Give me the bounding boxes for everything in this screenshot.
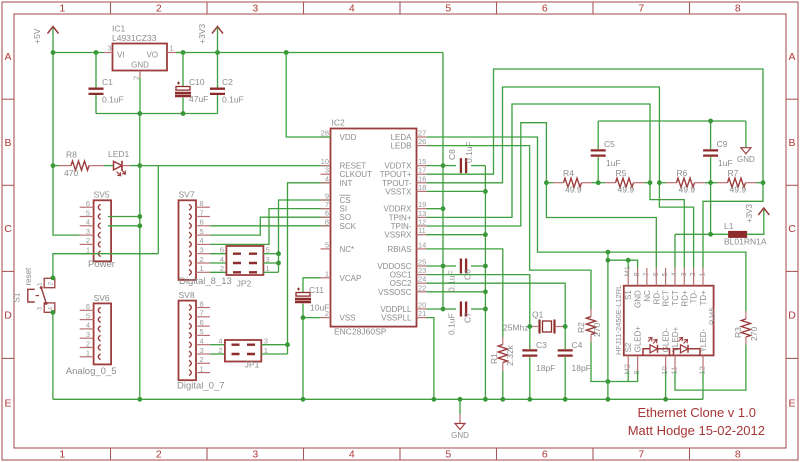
connector SV5 Power bbox=[80, 190, 115, 270]
svg-text:7: 7 bbox=[641, 272, 650, 276]
net LEDA to R3 bbox=[427, 137, 746, 311]
svg-text:L1: L1 bbox=[724, 221, 734, 231]
LED D1 LED1 bbox=[108, 149, 130, 176]
svg-text:8: 8 bbox=[200, 299, 204, 308]
svg-text:8: 8 bbox=[735, 3, 741, 15]
svg-text:270: 270 bbox=[592, 323, 602, 337]
svg-text:14: 14 bbox=[418, 240, 426, 249]
svg-text:3: 3 bbox=[37, 307, 44, 311]
junction bbox=[483, 289, 488, 294]
svg-text:INT: INT bbox=[340, 179, 353, 188]
svg-text:C7: C7 bbox=[463, 312, 473, 323]
junction Q1 right bbox=[563, 324, 568, 329]
svg-text:3: 3 bbox=[679, 272, 688, 276]
svg-text:19: 19 bbox=[418, 200, 426, 209]
stub bbox=[746, 182, 757, 184]
svg-text:GND: GND bbox=[634, 290, 643, 308]
svg-text:TD+: TD+ bbox=[699, 290, 708, 306]
svg-text:C: C bbox=[788, 223, 796, 235]
junction R5 right bbox=[648, 180, 653, 185]
svg-text:6: 6 bbox=[542, 3, 548, 15]
svg-text:270: 270 bbox=[749, 327, 759, 341]
svg-text:A: A bbox=[4, 51, 11, 63]
svg-text:VSS: VSS bbox=[340, 314, 356, 323]
wire SV8 pin4 to JP1 bbox=[210, 344, 225, 346]
wire bbox=[705, 182, 717, 184]
connector SV7 Digital_8_13 bbox=[179, 190, 232, 288]
svg-text:L4931CZ33: L4931CZ33 bbox=[112, 33, 157, 43]
junction bbox=[606, 379, 611, 384]
svg-text:26: 26 bbox=[418, 137, 426, 146]
svg-text:VSSOSC: VSSOSC bbox=[378, 288, 412, 297]
svg-text:0.1uF: 0.1uF bbox=[102, 95, 124, 105]
svg-text:C2: C2 bbox=[222, 77, 233, 87]
wire M2 drop bbox=[627, 371, 629, 382]
junction bbox=[483, 232, 488, 237]
resistor R3 270 bbox=[741, 319, 750, 337]
svg-text:4: 4 bbox=[325, 174, 329, 183]
svg-text:VDD: VDD bbox=[340, 133, 357, 142]
jumper JP1 bbox=[218, 337, 268, 370]
svg-text:RD+: RD+ bbox=[680, 290, 689, 307]
C10 plates bbox=[176, 87, 190, 91]
stub bbox=[459, 414, 461, 424]
svg-text:4: 4 bbox=[670, 272, 679, 276]
net SV7 pin4 to IC2 SI bbox=[210, 209, 331, 245]
svg-text:49.9: 49.9 bbox=[679, 185, 696, 195]
svg-text:Ethernet Clone v 1.0: Ethernet Clone v 1.0 bbox=[637, 405, 756, 420]
svg-text:49.9: 49.9 bbox=[565, 185, 582, 195]
svg-text:RBIAS: RBIAS bbox=[387, 245, 411, 254]
net gnd collector vertical bbox=[484, 166, 486, 400]
stub bbox=[553, 182, 564, 184]
wire +3V3 stem bbox=[217, 28, 219, 53]
svg-text:4: 4 bbox=[220, 255, 224, 264]
stub R8 left bbox=[59, 165, 71, 167]
wire VDDOSC to rail bbox=[427, 265, 444, 267]
svg-text:0.1uF: 0.1uF bbox=[464, 141, 474, 163]
svg-text:reset: reset bbox=[24, 267, 33, 286]
svg-text:Digital_0_7: Digital_0_7 bbox=[177, 381, 225, 392]
junction bbox=[441, 163, 446, 168]
wire VDDPLL to rail bbox=[427, 308, 444, 310]
svg-text:SV8: SV8 bbox=[179, 290, 195, 300]
svg-text:D: D bbox=[788, 309, 796, 321]
svg-text:D: D bbox=[4, 309, 12, 321]
svg-text:NC: NC bbox=[643, 290, 652, 302]
svg-text:C3: C3 bbox=[536, 340, 547, 350]
svg-text:LED1: LED1 bbox=[108, 149, 130, 159]
svg-text:0.1uF: 0.1uF bbox=[447, 313, 457, 335]
svg-text:5: 5 bbox=[86, 311, 90, 320]
junction bbox=[137, 163, 142, 168]
LED yellow inside RJ45 bbox=[674, 349, 701, 356]
svg-text:7: 7 bbox=[200, 309, 204, 318]
svg-text:12: 12 bbox=[418, 218, 426, 227]
wire S1 bottom to gnd bus bbox=[52, 312, 54, 399]
svg-text:49.9: 49.9 bbox=[730, 185, 747, 195]
svg-text:R1: R1 bbox=[489, 353, 499, 364]
junction bbox=[276, 251, 281, 256]
svg-text:7: 7 bbox=[200, 208, 204, 217]
resistor R1 2.32k bbox=[498, 345, 507, 363]
capacitor C3 18pF bbox=[522, 327, 555, 400]
svg-text:RCT: RCT bbox=[662, 290, 671, 307]
svg-text:7: 7 bbox=[638, 3, 644, 15]
wire VSSOSC to collector bbox=[427, 291, 486, 293]
svg-text:E: E bbox=[4, 398, 11, 410]
junction bbox=[51, 50, 56, 55]
jumper JP2 bbox=[220, 246, 270, 289]
svg-text:SV7: SV7 bbox=[179, 190, 195, 200]
svg-text:RD-: RD- bbox=[652, 290, 661, 305]
net SV7 pin5 to IC2 SO bbox=[210, 217, 331, 235]
svg-text:2: 2 bbox=[86, 339, 90, 348]
junction bbox=[301, 315, 306, 320]
svg-text:4: 4 bbox=[86, 321, 90, 330]
svg-text:6: 6 bbox=[542, 449, 548, 461]
svg-text:2: 2 bbox=[47, 282, 54, 286]
svg-text:6: 6 bbox=[200, 318, 204, 327]
junction S1 bottom bbox=[51, 310, 56, 315]
wire bbox=[644, 182, 650, 184]
wire SV5 pin5 to rail bbox=[108, 216, 140, 218]
capacitor C9 1uF bbox=[703, 121, 733, 183]
ground GND top right bbox=[741, 148, 751, 154]
svg-text:5: 5 bbox=[200, 227, 204, 236]
junction bus bbox=[663, 397, 668, 402]
svg-text:4: 4 bbox=[86, 218, 90, 227]
svg-text:3: 3 bbox=[252, 449, 258, 461]
wire GLED- to bus bbox=[665, 371, 667, 399]
svg-text:Analog_0_5: Analog_0_5 bbox=[66, 366, 117, 377]
capacitor C5 1uF bbox=[591, 121, 621, 183]
svg-text:4: 4 bbox=[47, 307, 54, 311]
svg-text:18pF: 18pF bbox=[572, 363, 591, 373]
svg-text:Digital_8_13: Digital_8_13 bbox=[179, 276, 232, 287]
svg-text:6: 6 bbox=[200, 218, 204, 227]
svg-text:C8: C8 bbox=[447, 149, 457, 160]
C4 plates bbox=[558, 350, 573, 355]
junction bbox=[441, 206, 446, 211]
junction bbox=[606, 258, 611, 263]
stub bbox=[605, 182, 616, 184]
svg-text:21: 21 bbox=[418, 309, 426, 318]
wire to TCT pin bbox=[674, 234, 676, 268]
net TPIN+ to R5/RD+ bbox=[427, 104, 685, 268]
junction bus bbox=[606, 397, 611, 402]
svg-text:VCAP: VCAP bbox=[340, 274, 362, 283]
wire R8 to LED1 bbox=[104, 165, 114, 167]
net LEDB to R2 bbox=[427, 146, 592, 309]
stub R8 right bbox=[89, 165, 104, 167]
svg-text:C9: C9 bbox=[717, 139, 728, 149]
junction bbox=[441, 264, 446, 269]
svg-text:S2: S2 bbox=[624, 342, 633, 352]
stub bbox=[666, 182, 677, 184]
svg-text:B: B bbox=[4, 137, 11, 149]
svg-text:18pF: 18pF bbox=[536, 363, 555, 373]
stub bbox=[745, 337, 747, 345]
junction bus bbox=[301, 397, 306, 402]
svg-text:C5: C5 bbox=[604, 139, 615, 149]
resistor R6 49.9 bbox=[677, 178, 695, 187]
C2 plates bbox=[210, 89, 225, 94]
capacitor C10 47uF bbox=[175, 53, 208, 114]
ground GND bottom bbox=[459, 399, 461, 414]
svg-text:11: 11 bbox=[670, 367, 679, 375]
svg-text:1: 1 bbox=[200, 364, 204, 373]
junction bbox=[284, 50, 289, 55]
svg-text:47uF: 47uF bbox=[189, 94, 208, 104]
junction bbox=[483, 307, 488, 312]
junction bbox=[94, 50, 99, 55]
svg-text:C10: C10 bbox=[189, 77, 205, 87]
svg-text:2: 2 bbox=[156, 3, 162, 15]
svg-text:1: 1 bbox=[59, 449, 65, 461]
junction bbox=[708, 119, 713, 124]
stub bbox=[590, 309, 592, 317]
junction bbox=[285, 342, 290, 347]
net LED1 cathode to gnd bus / vertical rail bbox=[139, 114, 141, 400]
svg-text:B: B bbox=[788, 137, 795, 149]
wire VSSTX to collector bbox=[427, 190, 486, 192]
svg-text:2: 2 bbox=[132, 76, 141, 80]
wire VSSPLL down to bus bbox=[427, 318, 434, 400]
svg-text:Q1: Q1 bbox=[532, 310, 544, 320]
junction bbox=[708, 180, 713, 185]
net center tap to L1 bbox=[710, 183, 712, 235]
svg-text:C4: C4 bbox=[572, 340, 583, 350]
svg-text:+3V3: +3V3 bbox=[197, 24, 207, 44]
C5 plates bbox=[591, 150, 606, 155]
resistor R8 470 bbox=[71, 161, 89, 170]
svg-text:1: 1 bbox=[200, 264, 204, 273]
junction bus bbox=[500, 397, 505, 402]
junction Q1 left bbox=[527, 324, 532, 329]
junction bbox=[215, 50, 220, 55]
wire gnd bus of regulator bbox=[96, 113, 218, 115]
junction bus bbox=[563, 397, 568, 402]
svg-text:22: 22 bbox=[418, 283, 426, 292]
capacitor C4 18pF bbox=[558, 327, 591, 400]
wire SV8 pin3 to JP1 bbox=[210, 353, 225, 355]
junction C5 bbox=[596, 180, 601, 185]
svg-text:S1: S1 bbox=[624, 290, 633, 300]
net TPIN- to R4/RD- bbox=[427, 123, 657, 268]
C8 plates bbox=[461, 158, 466, 173]
svg-text:10uF: 10uF bbox=[310, 303, 329, 313]
svg-text:R8: R8 bbox=[66, 150, 77, 160]
svg-text:GND: GND bbox=[451, 431, 469, 440]
junction bus bbox=[432, 397, 437, 402]
capacitor C8 bbox=[443, 141, 485, 173]
svg-text:10: 10 bbox=[660, 366, 669, 374]
svg-text:SCK: SCK bbox=[340, 222, 357, 231]
wire LED1 cathode bbox=[130, 165, 140, 167]
svg-text:5: 5 bbox=[200, 327, 204, 336]
svg-text:12: 12 bbox=[698, 366, 707, 374]
svg-text:C: C bbox=[4, 223, 12, 235]
svg-text:1uF: 1uF bbox=[606, 158, 621, 168]
wire bbox=[592, 182, 605, 184]
net +3V3 rail top bbox=[176, 52, 443, 54]
svg-text:ENC28J60SP: ENC28J60SP bbox=[334, 327, 387, 337]
svg-text:Matt Hodge 15-02-2012: Matt Hodge 15-02-2012 bbox=[628, 423, 765, 438]
C9 plates bbox=[703, 150, 718, 155]
svg-text:E: E bbox=[788, 398, 795, 410]
net TPOUT- to R6/TD- bbox=[427, 87, 694, 268]
connector U3 RJ45 HFJ11-2450E bbox=[614, 266, 717, 374]
svg-text:R5: R5 bbox=[616, 168, 627, 178]
junction R7 right bbox=[761, 180, 766, 185]
svg-text:6: 6 bbox=[651, 272, 660, 276]
stub bbox=[717, 182, 728, 184]
svg-text:GLED+: GLED+ bbox=[634, 326, 643, 353]
svg-text:4: 4 bbox=[200, 337, 204, 346]
net OSC1 to crystal bbox=[427, 275, 530, 327]
svg-text:2: 2 bbox=[156, 449, 162, 461]
capacitor C2 bbox=[210, 53, 244, 114]
svg-text:6: 6 bbox=[86, 199, 90, 208]
net OSC2 to crystal bbox=[427, 283, 566, 326]
svg-text:R3: R3 bbox=[733, 327, 743, 338]
svg-text:VSSRX: VSSRX bbox=[384, 231, 412, 240]
svg-text:3: 3 bbox=[86, 330, 90, 339]
svg-text:R4: R4 bbox=[563, 168, 574, 178]
wire bbox=[659, 182, 666, 184]
junction bbox=[483, 264, 488, 269]
svg-text:JP1: JP1 bbox=[245, 359, 260, 369]
svg-text:8: 8 bbox=[325, 217, 329, 226]
net +3V3 vertical rail bbox=[442, 53, 444, 310]
svg-text:VI: VI bbox=[117, 51, 125, 60]
svg-text:2: 2 bbox=[688, 272, 697, 276]
wire VDDTX to rail bbox=[427, 165, 444, 167]
svg-text:SV5: SV5 bbox=[94, 190, 110, 200]
stub bbox=[634, 182, 645, 184]
svg-text:TD-: TD- bbox=[690, 290, 699, 304]
junction bbox=[137, 214, 142, 219]
stub bbox=[582, 182, 593, 184]
stub bbox=[502, 363, 504, 372]
C11 plates bbox=[296, 293, 310, 297]
svg-text:1uF: 1uF bbox=[718, 158, 733, 168]
svg-text:8: 8 bbox=[735, 449, 741, 461]
LED green inside RJ45 bbox=[643, 349, 670, 356]
C3 plates bbox=[522, 350, 537, 355]
svg-text:M2: M2 bbox=[623, 364, 632, 374]
resistor R5 49.9 bbox=[616, 178, 634, 187]
ground symbol bbox=[455, 424, 465, 430]
svg-text:3: 3 bbox=[252, 3, 258, 15]
net shield S1 tie bbox=[607, 252, 609, 399]
wire IC1 gnd down bbox=[139, 78, 141, 114]
net VDD feed from rail bbox=[286, 53, 330, 138]
svg-text:7: 7 bbox=[638, 449, 644, 461]
svg-text:TCT: TCT bbox=[671, 290, 680, 306]
supply +5V arrow bbox=[48, 27, 59, 34]
net RBIAS to R1 bbox=[427, 249, 503, 337]
wire YLED- to bus bbox=[702, 371, 704, 399]
svg-text:VO: VO bbox=[146, 51, 158, 60]
svg-text:4: 4 bbox=[200, 236, 204, 245]
svg-text:TPIN-: TPIN- bbox=[391, 222, 412, 231]
wire R8 left bbox=[53, 165, 59, 167]
capacitor C11 10uF bbox=[295, 278, 329, 318]
wire VO to rail bbox=[176, 52, 183, 54]
svg-text:6: 6 bbox=[86, 302, 90, 311]
svg-text:1: 1 bbox=[86, 349, 90, 358]
net GND bus bbox=[53, 398, 703, 400]
junction bbox=[441, 307, 446, 312]
svg-text:18: 18 bbox=[418, 183, 426, 192]
svg-text:3: 3 bbox=[200, 246, 204, 255]
resistor R7 49.9 bbox=[728, 178, 746, 187]
wire R1 to bus bbox=[502, 371, 504, 399]
switch S1 reset bbox=[13, 267, 55, 312]
svg-text:A: A bbox=[788, 51, 795, 63]
svg-text:28: 28 bbox=[321, 129, 329, 138]
svg-text:2: 2 bbox=[200, 355, 204, 364]
svg-text:5: 5 bbox=[445, 3, 451, 15]
svg-text:5: 5 bbox=[325, 240, 329, 249]
net JP2 to IC2 CS bbox=[263, 253, 278, 255]
junction bus bbox=[483, 397, 488, 402]
capacitor C1 bbox=[89, 53, 124, 114]
junction bbox=[181, 111, 186, 116]
wire L1 to +3V3 bbox=[747, 209, 764, 234]
svg-text:VDDRX: VDDRX bbox=[383, 205, 412, 214]
wire S1 to SV5 pin1 bbox=[53, 254, 158, 278]
svg-text:11: 11 bbox=[418, 226, 426, 235]
junction bbox=[181, 50, 186, 55]
svg-text:NC*: NC* bbox=[340, 245, 355, 254]
wire VSSRX to gnd collector bbox=[427, 234, 486, 236]
svg-text:3: 3 bbox=[86, 227, 90, 236]
capacitor C6 bbox=[443, 259, 485, 293]
capacitor C7 bbox=[443, 302, 485, 336]
junction R8 left bbox=[51, 163, 56, 168]
svg-text:0.1uF: 0.1uF bbox=[447, 270, 457, 292]
svg-text:GND: GND bbox=[737, 155, 755, 164]
svg-text:5: 5 bbox=[445, 449, 451, 461]
wire VDDRX to rail bbox=[427, 208, 444, 210]
wire gnd stem bbox=[745, 121, 747, 148]
net +5V down to R8 and SV5 bbox=[53, 53, 80, 236]
junction bbox=[626, 258, 631, 263]
net RESET to IC2 bbox=[140, 165, 331, 167]
svg-text:1: 1 bbox=[325, 269, 329, 278]
C6 plates bbox=[461, 259, 466, 274]
net +5V rail bbox=[53, 52, 104, 54]
net gnd top line bbox=[598, 120, 746, 122]
svg-text:2: 2 bbox=[218, 346, 222, 355]
net SV7 pin6 to IC2 SCK bbox=[210, 225, 331, 227]
svg-text:5: 5 bbox=[660, 272, 669, 276]
svg-text:+5V: +5V bbox=[32, 28, 42, 44]
net VSS down to gnd bus bbox=[303, 318, 321, 400]
svg-text:470: 470 bbox=[64, 168, 78, 178]
svg-text:R7: R7 bbox=[728, 168, 739, 178]
junction R4 left bbox=[544, 180, 549, 185]
svg-text:4: 4 bbox=[349, 3, 355, 15]
svg-text:M1: M1 bbox=[623, 266, 632, 276]
svg-text:C1: C1 bbox=[102, 77, 113, 87]
svg-text:4: 4 bbox=[218, 337, 222, 346]
junction bus bbox=[527, 397, 532, 402]
svg-text:25Mhz: 25Mhz bbox=[503, 323, 529, 333]
